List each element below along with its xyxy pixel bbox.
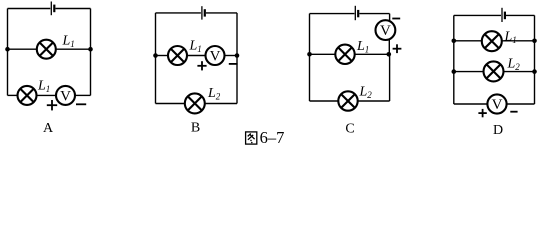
wire C right rail upper: [389, 14, 391, 22]
label plus (A): [47, 100, 57, 110]
wire D branch2-right: [504, 71, 535, 73]
voltmeter V (A): [56, 86, 75, 105]
wire D branch1-right: [502, 40, 535, 42]
caption hanzi tu (drawn): [246, 132, 257, 144]
wire B middle-mid: [187, 55, 206, 57]
wire A bottom-left: [8, 94, 18, 96]
battery A: [51, 2, 54, 16]
lamp L2 (B bottom branch): [185, 93, 205, 113]
lamp L2 (C bottom branch): [338, 91, 357, 110]
wire C right rail mid: [388, 39, 390, 55]
wire B top-right: [206, 12, 237, 14]
wire C middle-left: [310, 53, 336, 55]
wire C top-right: [359, 13, 389, 15]
lamp L1 (A bottom branch): [18, 86, 37, 105]
wire A middle-right: [56, 48, 91, 50]
wire C bottom-left: [310, 100, 339, 102]
node D left junction 1: [452, 39, 457, 44]
svg-text:L1: L1: [504, 29, 517, 45]
label plus (D): [478, 109, 486, 117]
node C left junction: [307, 52, 312, 57]
wire C bottom-right: [358, 100, 390, 102]
svg-text:V: V: [60, 88, 71, 104]
wire B bottom-left: [156, 103, 185, 105]
wire B middle-right: [225, 55, 238, 57]
node A right junction: [88, 47, 93, 52]
wire C top-left: [310, 13, 355, 15]
svg-text:L2: L2: [507, 57, 521, 73]
battery C: [355, 6, 358, 20]
wire D bottom-left: [454, 103, 488, 105]
node D left junction 2: [452, 69, 457, 74]
label minus (D): [510, 111, 517, 113]
svg-text:L2: L2: [359, 85, 373, 101]
wire D branch2-left: [454, 71, 484, 73]
node A left junction: [5, 47, 10, 52]
node B right junction: [235, 53, 240, 58]
label minus (C): [392, 18, 400, 20]
wire B left rail: [155, 13, 157, 104]
node D right junction 2: [532, 69, 537, 74]
wire D branch1-left: [454, 40, 482, 42]
node C right junction: [387, 52, 392, 57]
svg-text:L1: L1: [356, 39, 369, 55]
svg-text:D: D: [493, 123, 503, 138]
wire A middle-left: [8, 48, 37, 50]
label plus (C): [393, 44, 402, 53]
label plus (B): [197, 61, 206, 70]
wire C left rail: [309, 14, 311, 101]
wire B middle-left: [156, 55, 169, 57]
wire B top-left: [156, 12, 201, 14]
wire B bottom-right: [205, 103, 237, 105]
lamp L1 (B middle branch): [168, 46, 187, 65]
wire D bottom-right: [507, 103, 535, 105]
wire A top-right: [56, 8, 91, 10]
lamp L1 (D): [482, 31, 502, 51]
svg-text:B: B: [191, 121, 200, 136]
lamp L2 (D): [484, 61, 504, 81]
wire D top-left: [454, 14, 501, 16]
wire B right rail: [236, 13, 238, 104]
svg-text:V: V: [380, 23, 391, 39]
node B left junction: [153, 53, 158, 58]
svg-text:6–7: 6–7: [260, 128, 285, 147]
voltmeter V (D): [487, 94, 506, 113]
svg-text:L1: L1: [62, 34, 75, 50]
wire A right rail: [90, 9, 92, 96]
wire A bottom-right: [75, 94, 91, 96]
wire A bottom-mid: [37, 94, 57, 96]
label minus (B): [229, 63, 238, 65]
wire D right rail: [534, 15, 536, 104]
svg-text:V: V: [492, 97, 503, 113]
svg-text:L1: L1: [37, 79, 50, 95]
wire D top-right: [506, 14, 535, 16]
svg-text:L1: L1: [189, 39, 202, 55]
wire C middle-right: [355, 53, 389, 55]
voltmeter V (B): [206, 46, 225, 65]
lamp L1 (C middle branch): [335, 45, 354, 64]
wire A top-left: [8, 8, 51, 10]
svg-text:C: C: [345, 122, 354, 137]
node D right junction 1: [532, 39, 537, 44]
voltmeter V (C): [376, 20, 396, 40]
battery D: [502, 8, 505, 22]
wire A left rail: [7, 9, 9, 96]
label minus (A): [76, 103, 86, 105]
battery B: [202, 6, 205, 19]
wire C right rail lower: [389, 54, 391, 101]
svg-text:L2: L2: [207, 86, 221, 102]
svg-text:V: V: [210, 49, 221, 65]
svg-text:A: A: [43, 121, 54, 136]
wire D left rail: [453, 15, 455, 104]
lamp L1 (A middle branch): [37, 40, 56, 59]
